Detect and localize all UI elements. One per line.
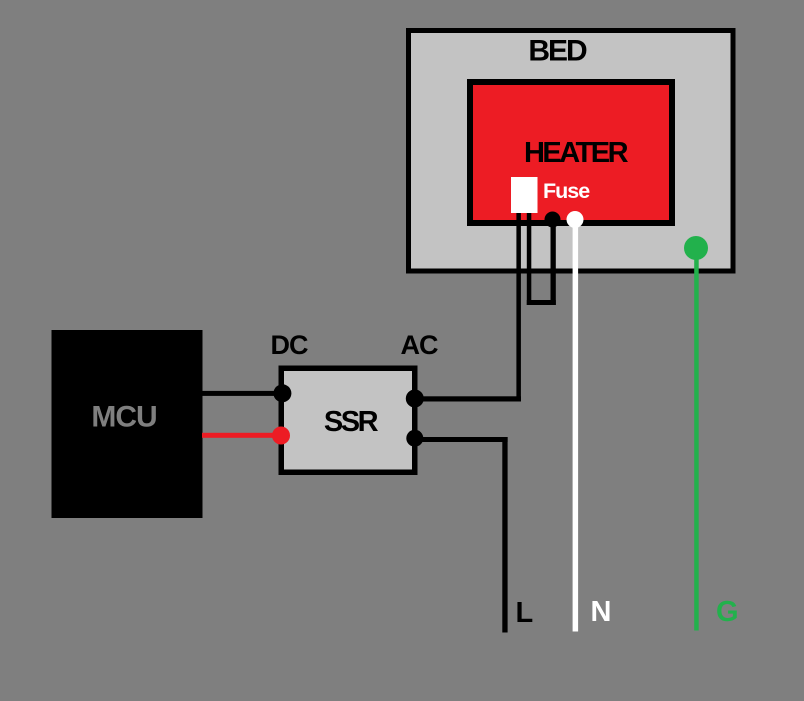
wire U-bend bottom segment bbox=[527, 300, 556, 305]
wire SSR AC in from line L (horizontal) bbox=[414, 437, 508, 442]
heater live terminal junction (black dot) bbox=[545, 212, 561, 228]
wire MCU to SSR DC- (red) bbox=[202, 433, 281, 438]
wire MCU to SSR DC+ (black) bbox=[202, 391, 282, 396]
bed enclosure box BED bbox=[409, 31, 734, 272]
neutral wire N (white) bbox=[573, 220, 579, 632]
wire SSR AC out to fuse (horizontal) bbox=[414, 396, 521, 401]
SSR AC top terminal junction (black dot) bbox=[406, 390, 424, 408]
fuse left leg wire bbox=[516, 205, 521, 402]
heater element HEATER bbox=[470, 82, 672, 223]
line wire L vertical (black) bbox=[502, 437, 507, 633]
svg-text:SSR: SSR bbox=[324, 406, 379, 438]
svg-text:AC: AC bbox=[401, 330, 438, 360]
svg-text:L: L bbox=[516, 597, 534, 629]
SSR relay box bbox=[281, 368, 415, 472]
ground wire G (green) bbox=[694, 248, 699, 631]
heater neutral terminal junction (white dot) bbox=[567, 211, 584, 228]
SSR AC bottom terminal junction (black dot) bbox=[406, 430, 423, 447]
wire U-bend right vertical to heater terminal bbox=[551, 219, 556, 305]
ground terminal junction on bed (green dot) bbox=[684, 236, 708, 260]
svg-text:DC: DC bbox=[271, 330, 308, 360]
SSR DC+ terminal junction (black dot) bbox=[273, 384, 291, 402]
svg-text:Fuse: Fuse bbox=[543, 179, 590, 203]
svg-text:G: G bbox=[716, 596, 739, 628]
svg-text:HEATER: HEATER bbox=[524, 137, 629, 169]
svg-text:MCU: MCU bbox=[91, 401, 156, 434]
MCU controller box bbox=[52, 330, 203, 518]
fuse right leg wire bbox=[527, 205, 532, 305]
SSR DC- terminal junction (red dot) bbox=[272, 427, 290, 445]
svg-text:BED: BED bbox=[528, 35, 587, 68]
svg-text:N: N bbox=[591, 596, 612, 628]
fuse F1 body bbox=[511, 177, 590, 213]
